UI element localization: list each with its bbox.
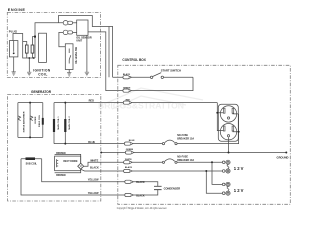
condenser capacitor plates <box>154 186 162 189</box>
junction dot receptacle ground at bus <box>228 152 230 154</box>
svg-text:SUB COIL: SUB COIL <box>26 163 38 166</box>
svg-text:CONTROL BOX: CONTROL BOX <box>122 58 146 62</box>
svg-text:BLACK: BLACK <box>136 181 145 184</box>
svg-text:RECT DIODE: RECT DIODE <box>63 161 78 163</box>
junction dot coil ground bus left <box>28 57 30 59</box>
svg-text:12V: 12V <box>234 188 245 193</box>
rectifier bridge diamond <box>78 163 84 169</box>
svg-text:GROUND: GROUND <box>277 156 289 160</box>
ignition coil primary winding bar stub wires <box>23 42 27 59</box>
wire black from rectifier <box>81 169 223 193</box>
receptacle top outlet slots and ground pin <box>223 108 233 119</box>
svg-text:BLACK: BLACK <box>136 194 145 197</box>
junction dot ground bus end <box>285 152 287 154</box>
svg-text:BROWN: BROWN <box>56 174 66 177</box>
svg-text:RED: RED <box>89 100 94 103</box>
svg-text:ENGINE: ENGINE <box>8 8 26 12</box>
ignition coil armature core rectangle <box>39 33 47 62</box>
connector pair 1 (bullet connectors) <box>63 21 72 25</box>
rectifier brown wire top <box>55 154 81 163</box>
ground symbol under ignition coil <box>27 72 31 76</box>
wire oil sensor unit to green return <box>88 32 193 91</box>
junction dot coil ground bus right <box>33 57 35 59</box>
junction dot exciter top <box>29 102 31 104</box>
wire oil sensor branch vertical <box>108 27 110 78</box>
svg-text:COIL: COIL <box>38 72 48 76</box>
oil level switch box <box>65 44 73 70</box>
junction dot green bus at generator edge <box>100 152 102 154</box>
bullet connector condenser top <box>125 180 134 183</box>
svg-text:BREAKER 15A: BREAKER 15A <box>177 137 194 140</box>
watermark Briggs & Stratton logo <box>104 88 203 109</box>
svg-text:BROWN: BROWN <box>56 152 66 155</box>
ground symbol under oil sensor unit <box>85 72 89 76</box>
oil sensor unit box <box>77 20 88 35</box>
svg-text:BLACK: BLACK <box>90 166 99 169</box>
receptacle ground wire to bus <box>228 137 230 152</box>
plug HT lead wire <box>13 34 35 59</box>
plug electrode <box>13 41 15 52</box>
svg-text:GREEN: GREEN <box>126 149 134 151</box>
connector pair 1 leads <box>73 22 77 24</box>
junction dot blue at receptacle <box>238 131 240 133</box>
start switch loop wire <box>164 76 193 78</box>
no-fuse breaker 15A symbol <box>162 143 164 145</box>
svg-text:BLUE: BLUE <box>129 140 135 142</box>
receptacle bottom outlet slots and ground pin <box>223 126 233 137</box>
12V terminal pair 1 link <box>227 164 229 169</box>
svg-text:UNIT: UNIT <box>76 40 82 43</box>
receptacle outlet top <box>220 106 236 122</box>
bullet connector green <box>123 89 131 92</box>
wire green ground bus <box>101 152 286 154</box>
bullet connector black dc <box>124 169 133 172</box>
sub coil winding bar <box>26 157 36 160</box>
main coil 2 winding bar <box>64 119 66 132</box>
ignition coil kill wire <box>35 23 63 58</box>
ignition coil winding bar 1 <box>25 45 28 53</box>
svg-text:WHITE: WHITE <box>125 159 132 161</box>
exciter group right branch (field coil) <box>42 103 44 138</box>
svg-text:Copyright © Briggs & Stratton,: Copyright © Briggs & Stratton, LLC. All … <box>117 207 167 210</box>
bullet connector red <box>123 101 132 104</box>
ground symbol under plug <box>12 72 16 76</box>
bullet connector white <box>124 161 133 164</box>
junction dot white 12V branch <box>211 161 213 163</box>
generator exciter group rails <box>18 103 43 138</box>
svg-text:GENERATOR: GENERATOR <box>31 90 52 94</box>
svg-text:DIODE: DIODE <box>35 116 37 123</box>
oil level switch contacts <box>69 49 71 64</box>
spark plug PLUG box <box>9 41 18 57</box>
bullet connector blue <box>124 142 132 145</box>
control box border <box>118 65 290 204</box>
12V terminal pair 2 link <box>227 187 229 192</box>
svg-text:SURGE ABSORBER: SURGE ABSORBER <box>23 111 26 132</box>
diode symbol <box>30 116 33 121</box>
sub coil top lead <box>21 158 42 160</box>
exciter group middle branch (diode) <box>29 103 31 138</box>
main coil 2 branch <box>64 103 66 144</box>
start switch blade <box>153 73 161 77</box>
main coil 1 winding bar <box>53 119 55 132</box>
svg-text:GREEN: GREEN <box>123 87 131 89</box>
ignition coil winding bar 2 <box>31 45 34 53</box>
junction dot black 12V branch <box>205 170 207 172</box>
wire white from rectifier <box>84 162 163 166</box>
oil level switch ground wire <box>68 70 70 73</box>
bullet connector black (kill wire) <box>123 76 131 79</box>
12V terminal row 3 <box>222 182 230 186</box>
ground symbol under oil level switch <box>67 73 71 77</box>
junction square ignition primary tap <box>34 36 36 38</box>
surge absorber symbol <box>18 116 21 121</box>
receptacle outlet bottom <box>220 124 236 140</box>
oil sensor unit ground wire <box>86 35 88 72</box>
svg-text:FIELD COIL: FIELD COIL <box>39 114 41 127</box>
ignition coil secondary winding stub wires <box>32 37 35 58</box>
svg-text:BLACK: BLACK <box>123 73 131 76</box>
12V terminal row 2 <box>222 169 230 173</box>
rectifier box <box>55 156 81 171</box>
rectifier internal connector <box>57 159 59 167</box>
junction dot exciter bottom <box>29 136 31 138</box>
sub coil left leg yellow wire <box>21 159 158 195</box>
start switch wire black <box>113 76 151 78</box>
svg-text:12V: 12V <box>234 166 245 171</box>
svg-text:YELLOW: YELLOW <box>88 179 99 182</box>
wire red drop to receptacle <box>217 103 223 131</box>
svg-text:BREAKER 10A: BREAKER 10A <box>177 159 194 162</box>
junction dot red at receptacle <box>216 112 218 114</box>
ignition coil ground wire <box>28 58 30 72</box>
exciter group left branch (surge absorber) <box>17 103 19 138</box>
start switch contact circles <box>150 76 152 78</box>
wire blue (main output) to breaker <box>54 114 239 144</box>
connector pair 2 (bullet connectors) <box>63 30 72 34</box>
svg-text:YELLOW: YELLOW <box>88 192 99 195</box>
svg-text:CONDENSER: CONDENSER <box>164 186 181 190</box>
svg-text:PLUG: PLUG <box>9 29 18 33</box>
receptacle plate <box>218 104 238 141</box>
engine box border <box>7 12 100 77</box>
junction dot main coil top <box>64 102 66 104</box>
wire kill lead to control box (staircase) <box>59 16 113 78</box>
svg-text:BLUE: BLUE <box>88 141 95 144</box>
12V terminal row 1 <box>222 160 230 164</box>
plug electrode gap dot <box>13 52 15 54</box>
svg-text:OIL LEVEL SW: OIL LEVEL SW <box>75 46 78 64</box>
plug ground wire <box>13 57 15 72</box>
svg-text:RED: RED <box>126 99 131 101</box>
no-fuse breaker 10A symbol <box>162 161 164 163</box>
bullet connector green bus <box>125 151 133 154</box>
field coil winding bar <box>42 118 44 125</box>
receptacle right side wire <box>233 114 239 132</box>
svg-text:BLACK: BLACK <box>125 166 133 169</box>
bullet connector condenser bottom <box>125 193 134 196</box>
svg-text:MAIN COIL 1: MAIN COIL 1 <box>57 116 60 130</box>
connector pair 2 leads <box>59 32 77 46</box>
rectifier brown wire bottom <box>55 169 81 173</box>
svg-text:WHITE: WHITE <box>90 159 98 162</box>
generator box border <box>8 94 101 201</box>
wire white to 12V terminals <box>177 162 223 184</box>
12V terminal row 4 <box>222 191 230 195</box>
wire red (main output hot) <box>54 102 217 104</box>
svg-text:START SWITCH: START SWITCH <box>161 68 181 72</box>
svg-text:MAIN COIL 2: MAIN COIL 2 <box>68 116 71 130</box>
junction dot main coil bottom <box>64 143 66 145</box>
main coil 1 branch <box>53 103 55 144</box>
sub coil right leg yellow wire <box>42 159 158 187</box>
